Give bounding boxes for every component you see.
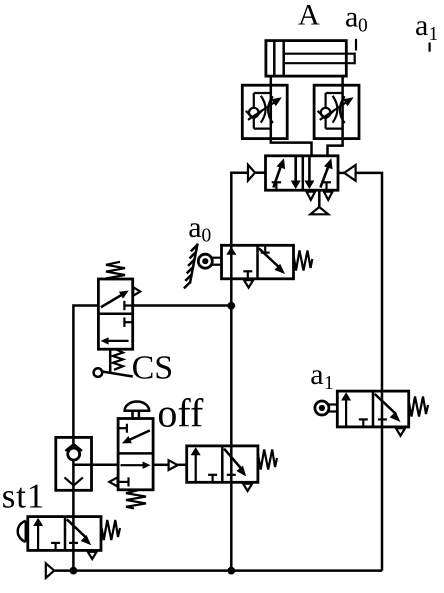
svg-text:0: 0 xyxy=(202,225,212,246)
svg-text:1: 1 xyxy=(324,373,334,394)
spring (relay valve) xyxy=(258,450,277,470)
spring (valve a0) xyxy=(294,251,313,271)
spring bottom (valve CS) xyxy=(113,350,123,370)
svg-text:off: off xyxy=(157,390,204,435)
label a0 (valve) xyxy=(188,211,211,247)
exhaust (valve off) xyxy=(109,477,117,486)
svg-text:CS: CS xyxy=(132,349,174,386)
cylinder A xyxy=(266,41,355,77)
pressure source at 5/2 port 1 xyxy=(310,190,328,214)
relay valve (3/2 pilot operated) xyxy=(187,446,258,482)
label a0 rod position marker xyxy=(345,1,368,51)
wire: cylinder rod-side port through right flow control to 5/2 port 2 xyxy=(328,76,343,157)
exhaust (valve a1) xyxy=(396,428,405,435)
svg-text:a: a xyxy=(310,358,323,391)
pilot actuator (relay valve) xyxy=(169,460,178,470)
valve st1 (3/2 pushbutton valve) xyxy=(28,517,101,551)
exhaust port 5 (5/2) xyxy=(307,192,316,200)
wire: 5/2 left pilot line down to junction with CS output xyxy=(231,173,248,306)
svg-text:a: a xyxy=(188,211,201,244)
mushroom pushbutton (valve off) xyxy=(125,402,150,419)
wire: 5/2 right pilot line down through valve a1 to bottom bus xyxy=(356,173,382,571)
wire: check valve branch to off valve xyxy=(73,464,118,467)
5/2 directional valve body xyxy=(266,156,339,190)
valve off (3/2 pushbutton valve) xyxy=(118,419,153,490)
junction: relay valve line / bus xyxy=(227,567,235,575)
wire: cylinder cap-side port through left flow control to 5/2 port 4 xyxy=(271,76,312,157)
exhaust port 3 (5/2) xyxy=(324,192,333,200)
exhaust (valve a0) xyxy=(244,280,253,287)
pilot actuator right (5/2) xyxy=(338,165,356,181)
exhaust (valve st1) xyxy=(88,552,97,559)
roller actuator (valve a1) xyxy=(315,401,337,415)
junction: CS output / pilot line xyxy=(227,302,235,310)
spring top (valve CS) xyxy=(106,262,125,280)
spring bottom (valve off) xyxy=(126,490,146,508)
svg-text:a: a xyxy=(345,1,358,34)
label a1 (valve) xyxy=(310,358,334,394)
wire: CS valve supply down through check valve and st1 to bus xyxy=(73,306,98,571)
wire: bottom pressure bus xyxy=(54,569,382,572)
label a1 rod position marker xyxy=(415,9,438,52)
svg-text:st1: st1 xyxy=(2,477,45,516)
svg-text:1: 1 xyxy=(429,24,439,45)
pushbutton (valve st1) xyxy=(18,521,28,542)
exhaust (relay valve) xyxy=(243,484,252,491)
manual detent lever (valve CS) xyxy=(94,349,133,377)
svg-text:0: 0 xyxy=(358,16,368,37)
pressure source (bottom bus) xyxy=(46,563,54,578)
valve a1 (3/2 roller limit valve) xyxy=(337,391,408,427)
cam wall (valve a0) xyxy=(184,244,198,289)
svg-text:a: a xyxy=(415,9,428,42)
roller actuator (valve a0) xyxy=(198,254,221,268)
spring (valve st1) xyxy=(101,520,120,540)
svg-text:A: A xyxy=(298,0,320,32)
spring (valve a1) xyxy=(409,397,428,417)
flow control valve (right, one-way) xyxy=(314,85,359,138)
junction: st1 line / bus xyxy=(70,567,78,575)
wire: junction down through relay valve to bottom bus xyxy=(230,306,233,571)
valve a0 (3/2 roller limit valve) xyxy=(222,245,294,278)
valve CS (3/2 manual detent valve) xyxy=(98,279,140,349)
wire: CS valve output to pilot-line junction xyxy=(133,304,232,307)
check valve xyxy=(56,437,92,490)
flow control valve (left, one-way) xyxy=(242,85,287,138)
pilot actuator left (5/2) xyxy=(248,165,266,181)
wire: off valve output to relay valve pilot xyxy=(153,464,169,467)
